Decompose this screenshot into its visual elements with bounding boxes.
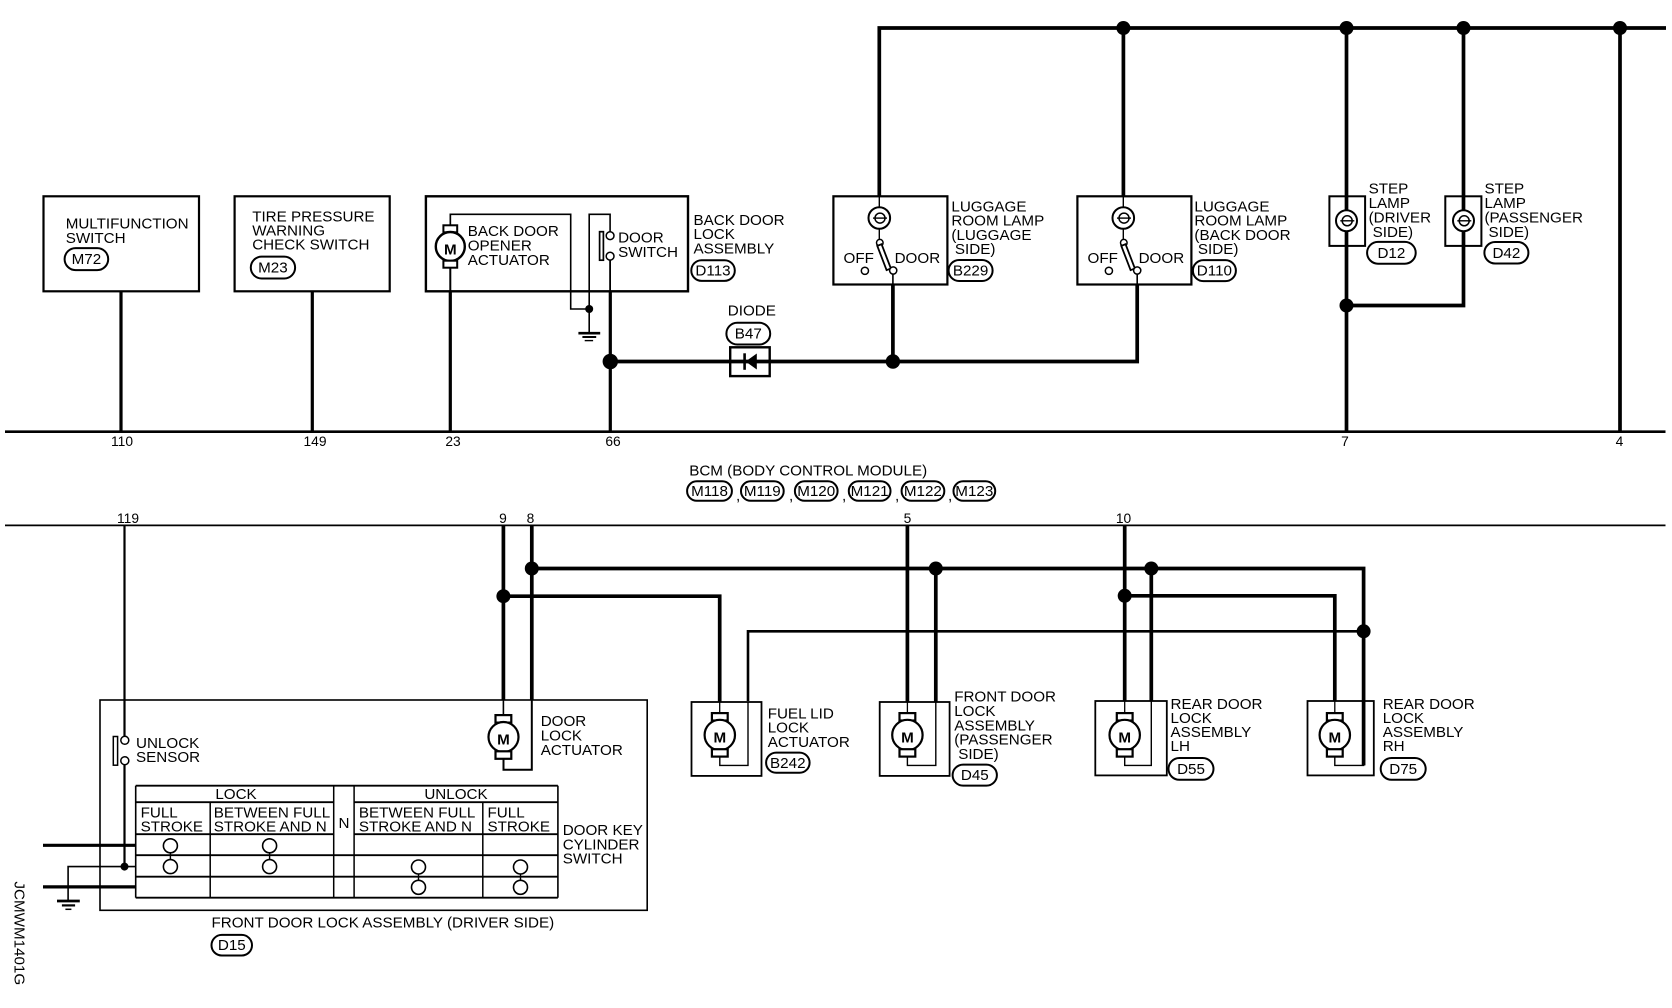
svg-text:7: 7 xyxy=(1341,434,1349,449)
wire pin 149 xyxy=(311,291,314,431)
svg-text:OFF: OFF xyxy=(844,250,874,267)
step lamp D42 label xyxy=(1484,181,1583,264)
svg-text:,: , xyxy=(842,487,846,504)
diode B47 xyxy=(726,302,776,376)
fuel lid lock actuator box B242 xyxy=(692,702,762,776)
wire D45 return xyxy=(934,569,938,703)
rear door LH label D55 xyxy=(1169,696,1263,780)
svg-text:4: 4 xyxy=(1616,434,1624,449)
node bus/D42 xyxy=(1457,21,1471,35)
svg-text:SIDE): SIDE) xyxy=(955,241,996,258)
svg-text:B242: B242 xyxy=(770,755,805,772)
wire ground node up to door switch top xyxy=(589,214,610,309)
front door passenger label D45 xyxy=(953,689,1056,786)
node bus/D110 xyxy=(1116,21,1130,35)
svg-text:B229: B229 xyxy=(953,263,988,280)
svg-text:UNLOCK: UNLOCK xyxy=(424,786,487,803)
svg-text:M: M xyxy=(1328,730,1341,747)
svg-text:BCM (BODY CONTROL MODULE): BCM (BODY CONTROL MODULE) xyxy=(689,462,927,479)
luggage lamp B229 label xyxy=(949,198,1045,281)
svg-text:ACTUATOR: ACTUATOR xyxy=(541,742,623,759)
wire net8 bus to rear door RH xyxy=(532,569,1364,766)
ground symbol (driver door) xyxy=(57,901,80,909)
svg-text:D113: D113 xyxy=(695,263,730,280)
svg-text:JCMWM1401G: JCMWM1401G xyxy=(11,881,28,985)
BCM upper boundary line xyxy=(5,430,1666,433)
node net8 xyxy=(525,562,539,576)
svg-text:M: M xyxy=(713,730,726,747)
door lock actuator motor (driver) xyxy=(489,700,532,770)
svg-text:D42: D42 xyxy=(1492,245,1520,262)
node D12/D42 link xyxy=(1340,299,1354,313)
svg-text:STROKE: STROKE xyxy=(141,818,203,835)
svg-text:,: , xyxy=(736,487,740,504)
svg-text:,: , xyxy=(789,487,793,504)
node net10 xyxy=(1118,589,1132,603)
front door lock assembly (driver side) box D15 xyxy=(100,700,647,910)
svg-text:SIDE): SIDE) xyxy=(1489,224,1530,241)
connector M123 xyxy=(954,481,996,501)
wire pin 10 to rear door LH actuator xyxy=(1123,525,1127,701)
svg-text:D45: D45 xyxy=(961,767,989,784)
svg-text:M23: M23 xyxy=(258,260,288,277)
svg-text:M122: M122 xyxy=(904,483,942,500)
svg-text:119: 119 xyxy=(117,511,139,526)
table contact circles UNLOCK between xyxy=(412,860,426,894)
wire pin 110 xyxy=(119,291,122,431)
svg-text:STROKE AND N: STROKE AND N xyxy=(214,818,327,835)
svg-text:D15: D15 xyxy=(218,937,246,954)
svg-text:SENSOR: SENSOR xyxy=(136,749,200,766)
door lock actuator label xyxy=(541,713,623,759)
multifunction switch box M72 xyxy=(44,196,200,291)
svg-text:ACTUATOR: ACTUATOR xyxy=(468,252,550,269)
node net9 xyxy=(496,589,510,603)
wire stub to table row1 xyxy=(43,844,136,847)
rear door lock assembly RH box D75 xyxy=(1308,701,1374,775)
wire stub to table row3 xyxy=(43,885,136,888)
wire top bus xyxy=(879,28,1666,197)
svg-text:SIDE): SIDE) xyxy=(1198,241,1239,258)
svg-text:RH: RH xyxy=(1383,738,1405,755)
connector M119 xyxy=(741,481,793,504)
front door lock assembly (passenger side) box D45 xyxy=(880,702,950,776)
svg-text:ASSEMBLY: ASSEMBLY xyxy=(694,240,775,257)
svg-text:DOOR: DOOR xyxy=(1139,250,1185,267)
wire table row2 to ground xyxy=(68,867,136,901)
svg-text:SIDE): SIDE) xyxy=(958,746,999,763)
connector M121 xyxy=(849,481,899,504)
door key cylinder switch table xyxy=(136,786,558,898)
wire step lamp D12 / pin 7 xyxy=(1345,28,1349,432)
rear door RH actuator motor xyxy=(1320,701,1364,765)
wire net10 to rear door RH actuator xyxy=(1125,596,1335,701)
svg-text:149: 149 xyxy=(303,434,326,449)
node luggage lamp B229 junction xyxy=(886,354,900,368)
step lamp (passenger side) box D42 xyxy=(1445,196,1481,246)
node net8/D55 xyxy=(1144,562,1158,576)
wire D42 to D12 link xyxy=(1347,28,1464,306)
wire fuel lid return xyxy=(748,631,1364,701)
tire pressure warning check switch box M23 xyxy=(235,196,390,291)
wire unlock sensor to table row2 xyxy=(123,765,125,867)
svg-text:66: 66 xyxy=(605,434,621,449)
table contact circles LOCK between xyxy=(263,839,277,874)
node bus/D12 xyxy=(1340,21,1354,35)
rear door lock assembly LH box D55 xyxy=(1095,701,1167,775)
wire pin 119 to unlock sensor xyxy=(123,525,125,736)
svg-text:110: 110 xyxy=(111,434,133,449)
wire luggage lamp D110 top xyxy=(1122,28,1126,197)
svg-text:10: 10 xyxy=(1116,511,1132,526)
node net8/fuel-lid return xyxy=(1357,624,1371,638)
svg-text:M: M xyxy=(497,732,510,749)
svg-text:M72: M72 xyxy=(72,251,102,268)
svg-text:B47: B47 xyxy=(735,326,762,343)
svg-text:DIODE: DIODE xyxy=(728,302,776,319)
front door passenger actuator motor xyxy=(892,702,936,765)
node bus/pin4 xyxy=(1613,21,1627,35)
svg-text:M119: M119 xyxy=(744,483,781,500)
svg-text:23: 23 xyxy=(445,434,461,449)
wire motor bottom to box edge xyxy=(449,268,451,292)
svg-text:ACTUATOR: ACTUATOR xyxy=(768,734,850,751)
node ground junction xyxy=(585,305,593,313)
svg-text:5: 5 xyxy=(904,511,912,526)
svg-text:M: M xyxy=(901,730,914,747)
svg-text:M: M xyxy=(444,241,457,258)
table contact circles LOCK full-stroke xyxy=(163,839,177,874)
svg-text:STROKE: STROKE xyxy=(488,818,550,835)
svg-text:D75: D75 xyxy=(1389,761,1417,778)
svg-text:8: 8 xyxy=(527,511,535,526)
connector M122 xyxy=(902,481,953,504)
svg-text:FRONT DOOR LOCK ASSEMBLY (DRIV: FRONT DOOR LOCK ASSEMBLY (DRIVER SIDE) xyxy=(212,914,555,931)
svg-text:D110: D110 xyxy=(1197,263,1232,280)
table contact circles UNLOCK full-stroke xyxy=(514,860,528,894)
svg-text:CHECK SWITCH: CHECK SWITCH xyxy=(252,237,369,254)
svg-text:SWITCH: SWITCH xyxy=(618,244,678,261)
svg-text:LOCK: LOCK xyxy=(215,786,256,803)
connector M118 xyxy=(687,481,740,504)
back door opener actuator motor xyxy=(436,214,465,267)
back door assembly label D113 xyxy=(691,212,784,281)
wire diode net (to luggage room lamps) xyxy=(610,285,1137,362)
door key cylinder switch label xyxy=(563,822,643,868)
wire pin 66 xyxy=(609,291,612,431)
svg-text:M118: M118 xyxy=(691,483,728,500)
door switch xyxy=(600,230,678,292)
wire luggage lamp B229 bottom xyxy=(891,285,895,362)
svg-text:DOOR: DOOR xyxy=(895,250,941,267)
svg-text:D12: D12 xyxy=(1377,245,1405,262)
step lamp (driver side) box D12 xyxy=(1329,196,1365,246)
svg-text:M120: M120 xyxy=(797,483,835,500)
wire net9 to fuel lid actuator xyxy=(503,596,719,702)
wire pin 9 to door lock actuator xyxy=(502,525,506,700)
svg-text:D55: D55 xyxy=(1177,761,1205,778)
rear door RH label D75 xyxy=(1381,696,1475,780)
wire D55 return xyxy=(1149,569,1153,702)
unlock sensor xyxy=(113,735,200,766)
node pin66/diode junction xyxy=(603,354,618,369)
svg-text:M123: M123 xyxy=(955,483,993,500)
svg-text:SWITCH: SWITCH xyxy=(66,230,126,247)
wire pin 4 xyxy=(1618,28,1622,432)
wire pin 23 xyxy=(449,291,452,431)
node net8/D45 xyxy=(929,562,943,576)
luggage room lamp (luggage side) box B229 xyxy=(833,196,947,284)
wire pin 5 to front door passenger actuator xyxy=(906,525,910,702)
svg-text:SWITCH: SWITCH xyxy=(563,851,623,868)
rear door LH actuator motor xyxy=(1110,701,1152,765)
BCM lower boundary line xyxy=(5,524,1666,526)
fuel lid label B242 xyxy=(766,705,850,772)
step lamp D12 label xyxy=(1367,181,1431,264)
svg-text:9: 9 xyxy=(499,511,507,526)
svg-text:,: , xyxy=(948,487,952,504)
svg-text:,: , xyxy=(895,487,899,504)
luggage lamp D110 label xyxy=(1193,198,1291,281)
luggage room lamp (back door side) box D110 xyxy=(1077,196,1191,284)
wire pin 8 down into driver door box xyxy=(530,525,534,700)
node sensor/table/ground xyxy=(121,863,129,871)
connector M120 xyxy=(795,481,846,504)
wire motor top to ground node xyxy=(450,214,585,309)
svg-text:SIDE): SIDE) xyxy=(1373,224,1414,241)
svg-text:LH: LH xyxy=(1171,738,1190,755)
svg-text:M121: M121 xyxy=(851,483,889,500)
fuel lid lock actuator motor xyxy=(705,702,748,765)
svg-text:N: N xyxy=(339,815,350,832)
svg-text:M: M xyxy=(1118,730,1131,747)
svg-text:STROKE AND N: STROKE AND N xyxy=(359,818,472,835)
svg-text:OFF: OFF xyxy=(1088,250,1118,267)
ground symbol (back door) xyxy=(578,309,600,341)
back door lock assembly box D113 xyxy=(426,196,688,291)
driver door assembly label D15 xyxy=(212,914,555,955)
